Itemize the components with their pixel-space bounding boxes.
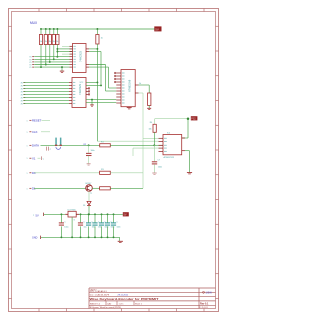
svg-text:X0: X0 (21, 85, 23, 87)
svg-text:1k: 1k (40, 41, 42, 43)
svg-text:X0: X0 (21, 100, 23, 102)
svg-text:T1: T1 (90, 193, 92, 195)
svg-text:RESET: RESET (32, 118, 42, 122)
svg-text:C: C (64, 222, 66, 224)
svg-text:5V: 5V (155, 28, 159, 32)
svg-text:R3: R3 (101, 169, 104, 171)
svg-text:X0: X0 (21, 82, 23, 84)
svg-text:1k: 1k (101, 38, 103, 40)
svg-text:G: G (74, 220, 76, 222)
svg-text:X0: X0 (21, 97, 23, 99)
svg-text:DATA: DATA (32, 143, 39, 147)
svg-text:1 E/N: 1 E/N (206, 291, 212, 294)
svg-text:1: 1 (27, 132, 28, 134)
svg-text:CLK: CLK (32, 130, 38, 134)
svg-text:C: C (43, 159, 45, 161)
svg-text:C: C (50, 149, 52, 151)
svg-text:R4: R4 (150, 122, 152, 124)
svg-text:PS2: PS2 (191, 119, 196, 121)
svg-text:Rev 0.1: Rev 0.1 (200, 303, 209, 306)
svg-text:IC3 7805: IC3 7805 (68, 209, 77, 211)
svg-text:Sheet 1: Sheet 1 (135, 302, 143, 305)
svg-text:74HC923: 74HC923 (78, 83, 82, 95)
svg-text:1k: 1k (45, 41, 47, 43)
svg-text:1k: 1k (49, 41, 51, 43)
svg-text:X0: X0 (21, 103, 23, 105)
svg-text:P: 29.11.11: P: 29.11.11 (200, 307, 208, 309)
svg-text:100n: 100n (117, 227, 121, 229)
svg-text:X0: X0 (21, 88, 23, 90)
svg-text:a: a (33, 214, 34, 216)
svg-text:5V: 5V (124, 214, 127, 217)
svg-text:F.PV: 1.CAD.AS.4.3: F.PV: 1.CAD.AS.4.3 (90, 290, 107, 293)
svg-text:MUX: MUX (30, 21, 38, 25)
svg-text:5V: 5V (36, 214, 39, 218)
svg-text:100n: 100n (91, 150, 95, 152)
svg-text:1: 1 (27, 145, 28, 147)
svg-text:100n: 100n (158, 166, 162, 168)
svg-text:BC547: BC547 (86, 183, 92, 185)
svg-text:D1: D1 (83, 205, 85, 207)
svg-text:B.Ulmann, Wired for sound (PDP: B.Ulmann, Wired for sound (PDP8) (90, 307, 121, 309)
svg-text:X0: X0 (21, 94, 23, 96)
svg-text:CAD: CAD (107, 302, 112, 305)
svg-text:10k: 10k (149, 129, 152, 131)
svg-text:100n: 100n (105, 227, 109, 229)
svg-text:C: C (84, 222, 86, 224)
svg-text:1k: 1k (56, 41, 58, 43)
svg-text:1: 1 (27, 188, 28, 190)
svg-text:C: C (117, 222, 119, 224)
svg-text:AT90S2313: AT90S2313 (164, 156, 175, 159)
svg-text:100u: 100u (64, 227, 68, 229)
svg-text:1: 1 (27, 120, 28, 122)
svg-text:1 of 1: 1 of 1 (119, 303, 125, 305)
svg-text:X1: X1 (32, 156, 36, 160)
svg-text:100n: 100n (111, 227, 115, 229)
svg-text:Y0: Y0 (29, 67, 31, 69)
svg-text:10u: 10u (84, 227, 87, 229)
svg-text:ATMEGA8: ATMEGA8 (128, 79, 132, 92)
svg-text:GND: GND (32, 237, 38, 240)
svg-text:EAGLE 5.2: EAGLE 5.2 (90, 302, 101, 305)
svg-text:74HC923: 74HC923 (79, 50, 83, 62)
svg-text:1: 1 (27, 173, 28, 175)
svg-text:Wise Keyboard-Encoder for PDP8: Wise Keyboard-Encoder for PDP8/MIT (90, 297, 159, 301)
svg-text:X0: X0 (21, 91, 23, 93)
svg-text:1: 1 (27, 158, 28, 160)
svg-text:1k: 1k (53, 41, 55, 43)
svg-text:1k: 1k (139, 83, 141, 85)
svg-text:C7: C7 (158, 160, 160, 162)
